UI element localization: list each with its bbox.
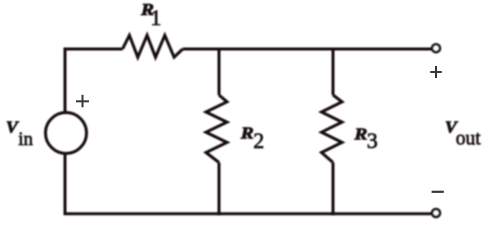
svg-text:R: R — [240, 124, 254, 143]
svg-text:3: 3 — [367, 128, 378, 153]
svg-text:R: R — [353, 124, 367, 143]
svg-text:2: 2 — [253, 128, 264, 153]
plus mark at output — [430, 66, 442, 78]
minus mark at output — [432, 191, 444, 193]
wire from top node down to R3 — [332, 48, 335, 95]
wire from Vin bottom, along bottom to R2 — [65, 154, 219, 214]
wire from R2 down to bottom wire — [218, 163, 221, 216]
wire from R1 to node at R2 — [183, 48, 219, 51]
wire bottom from R2 to R3 — [219, 212, 333, 215]
svg-text:1: 1 — [150, 5, 161, 30]
svg-text:in: in — [18, 129, 33, 150]
wire bottom from R3 to output bottom terminal — [333, 212, 431, 215]
voltage source Vin — [46, 113, 87, 154]
svg-text:out: out — [456, 129, 482, 150]
wire from top node down to R2 — [218, 48, 221, 95]
output terminal top — [432, 44, 440, 52]
wire from R3 down to bottom wire — [332, 163, 335, 216]
resistor R3 — [322, 95, 343, 163]
output terminal bottom — [432, 209, 440, 217]
plus polarity mark of Vin — [76, 95, 89, 108]
resistor R1 — [123, 35, 183, 57]
wire from node R2 to node R3 — [219, 48, 333, 51]
resistor R2 — [206, 95, 227, 163]
wire from node R3 to output top terminal — [333, 48, 431, 51]
wire from Vin top terminal up to top-left corner and across to R1 — [65, 49, 123, 113]
